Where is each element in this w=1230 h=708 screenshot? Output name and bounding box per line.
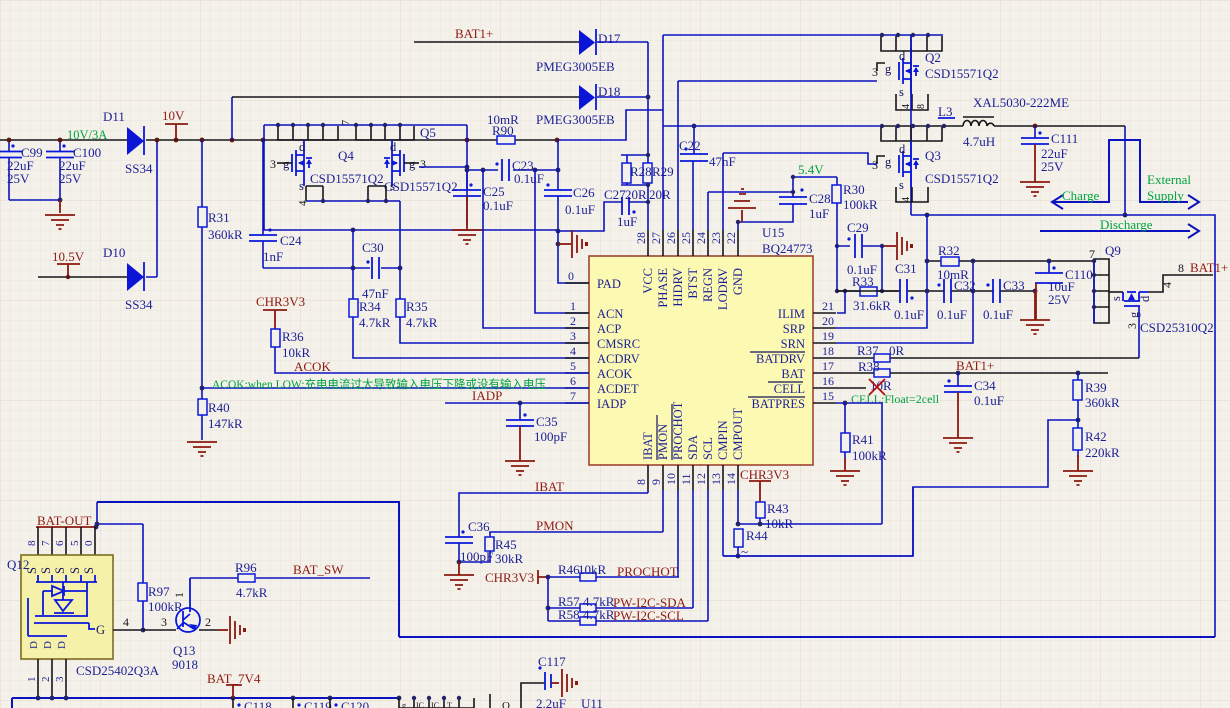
wire Q4Q5 top bus (264, 125, 467, 140)
svg-text:10kR: 10kR (282, 345, 311, 360)
wire SCL column (707, 490, 709, 621)
wire Q9 gate (1138, 306, 1140, 358)
svg-text:360kR: 360kR (1085, 395, 1120, 410)
capacitor C36 (445, 519, 493, 564)
svg-text:C25: C25 (483, 184, 505, 199)
svg-text:100kR: 100kR (843, 197, 878, 212)
IC bottom pin numbers (634, 473, 738, 485)
junction R31/ACDET (200, 386, 205, 391)
svg-text:10: 10 (664, 473, 678, 485)
wire C26 bottom to C27 (558, 202, 622, 231)
discharge arrow (1040, 217, 1199, 238)
svg-text:d: d (899, 49, 906, 63)
svg-text:XAL5030-222ME: XAL5030-222ME (973, 95, 1069, 110)
svg-text:SRP: SRP (783, 322, 805, 336)
wire row230 to row268 (352, 230, 354, 268)
wire gate row (143, 629, 176, 631)
svg-text:Discharge: Discharge (1100, 217, 1153, 232)
svg-text:CHR3V3: CHR3V3 (740, 467, 789, 482)
wire R57 row (548, 607, 693, 609)
svg-text:5: 5 (69, 540, 81, 546)
wire BAT row (836, 372, 1108, 374)
svg-text:g: g (402, 701, 406, 708)
svg-text:0: 0 (83, 540, 95, 546)
capacitor C26 (544, 140, 595, 231)
wire BATDRV R37 (836, 357, 1139, 359)
svg-text:3: 3 (54, 676, 66, 682)
svg-text:1: 1 (570, 299, 576, 313)
svg-text:SDA: SDA (686, 435, 700, 460)
resistor R44 (734, 528, 768, 559)
wire Q9 drain to BAT1+ (1148, 275, 1213, 292)
svg-text:16: 16 (822, 374, 834, 388)
svg-text:IADP: IADP (472, 388, 502, 403)
wire IADP (445, 402, 589, 404)
svg-text:IC: IC (416, 701, 424, 708)
IC top pin stubs (648, 230, 738, 256)
svg-text:Q9: Q9 (1105, 243, 1121, 258)
svg-text:0.1uF: 0.1uF (974, 393, 1004, 408)
svg-text:ACP: ACP (597, 322, 621, 336)
resistor R57 (558, 594, 615, 612)
svg-text:C35: C35 (536, 414, 558, 429)
svg-text:CSD15571Q2: CSD15571Q2 (384, 179, 458, 194)
wire phase row (663, 125, 881, 127)
svg-text:BAT-OUT: BAT-OUT (37, 513, 91, 528)
svg-text:CELL:Float=2cell: CELL:Float=2cell (851, 392, 940, 406)
svg-text:g: g (885, 155, 892, 169)
wire ACDET (202, 387, 589, 389)
svg-text:C111: C111 (1051, 131, 1078, 146)
junction dots on rail (7, 138, 12, 143)
svg-text:CSD25402Q3A: CSD25402Q3A (76, 663, 160, 678)
svg-text:18: 18 (822, 344, 834, 358)
svg-text:9: 9 (649, 479, 663, 485)
svg-text:T: T (447, 701, 452, 708)
svg-text:11: 11 (679, 473, 693, 485)
svg-text:10V: 10V (162, 108, 185, 123)
svg-text:BATPRES: BATPRES (752, 397, 806, 411)
svg-text:R37: R37 (857, 343, 879, 358)
svg-text:25: 25 (679, 232, 693, 244)
svg-text:13: 13 (709, 473, 723, 485)
wire row230 (263, 229, 558, 231)
svg-text:3: 3 (161, 615, 167, 629)
svg-text:3: 3 (270, 157, 276, 171)
svg-text:R28: R28 (630, 164, 652, 179)
wire Q2 top bus (663, 34, 943, 36)
svg-text:D10: D10 (103, 245, 125, 260)
wire SRN (836, 261, 973, 343)
wire R58 row (548, 620, 708, 622)
svg-text:0R: 0R (889, 343, 905, 358)
IC left pin names (597, 277, 640, 411)
ground rotated at C29 (884, 232, 913, 260)
capacitor C118 (233, 698, 272, 708)
svg-text:PMON: PMON (656, 424, 670, 460)
svg-text:CELL: CELL (774, 382, 805, 396)
svg-text:12: 12 (694, 473, 708, 485)
ground under R40 (187, 442, 217, 456)
svg-text:d: d (1138, 295, 1152, 302)
svg-text:4.7uH: 4.7uH (963, 134, 995, 149)
resistor R90 on rail (487, 112, 519, 144)
capacitor C25 (452, 170, 513, 244)
wire ILIM up (837, 291, 845, 313)
svg-text:100kR: 100kR (852, 448, 887, 463)
resistor R38 (858, 359, 892, 393)
wire GND pin up (737, 222, 739, 230)
svg-text:ACOK: ACOK (597, 367, 632, 381)
svg-text:U15: U15 (762, 225, 784, 240)
svg-text:BAT1+: BAT1+ (956, 358, 994, 373)
capacitor C100 (46, 140, 101, 200)
svg-text:C117: C117 (538, 654, 566, 669)
transistor Q4 (270, 140, 384, 193)
pad block Q4 (278, 126, 338, 140)
svg-text:R40: R40 (208, 400, 230, 415)
svg-text:4.7kR: 4.7kR (583, 607, 615, 622)
svg-text:D11: D11 (103, 109, 125, 124)
svg-text:47nF: 47nF (709, 154, 736, 169)
svg-text:2: 2 (205, 615, 211, 629)
svg-text:External: External (1147, 172, 1191, 187)
wire rail to corner (557, 110, 663, 140)
capacitor C111 (1020, 126, 1078, 196)
wire C23 row (467, 140, 558, 225)
connector block bottom (399, 698, 474, 708)
svg-text:1nF: 1nF (263, 249, 283, 264)
resistor R40 (198, 388, 243, 440)
svg-text:R58: R58 (558, 607, 580, 622)
svg-text:C34: C34 (974, 378, 996, 393)
svg-text:4.7kR: 4.7kR (406, 315, 438, 330)
svg-text:3: 3 (570, 329, 576, 343)
wire CMPIN row (738, 555, 913, 557)
inductor L3 (938, 95, 1069, 149)
svg-text:0.1uF: 0.1uF (514, 171, 544, 186)
ground rotated Q13 (218, 616, 246, 644)
net BAT-OUT (36, 513, 96, 528)
svg-text:R38: R38 (858, 359, 880, 374)
svg-text:220kR: 220kR (1085, 445, 1120, 460)
pad block Q3 top (881, 127, 942, 141)
ground inverted at GND pin (728, 189, 756, 222)
svg-text:ACDRV: ACDRV (597, 352, 640, 366)
sense cap row (837, 290, 1035, 292)
svg-text:G: G (96, 623, 105, 637)
svg-text:SS34: SS34 (125, 297, 153, 312)
svg-text:25V: 25V (7, 171, 30, 186)
wire discharge row right (1125, 215, 1215, 637)
capacitor C23 (495, 158, 544, 186)
wire to PAD (558, 231, 589, 283)
svg-text:D: D (56, 641, 68, 649)
svg-text:31.6kR: 31.6kR (853, 298, 891, 313)
svg-text:R44: R44 (746, 528, 768, 543)
transistor Q5 (384, 140, 458, 194)
capacitor C110 (1035, 261, 1093, 320)
svg-text:BQ24773: BQ24773 (762, 241, 813, 256)
svg-text:g: g (409, 157, 416, 171)
svg-text:LODRV: LODRV (716, 268, 730, 310)
svg-text:BAT: BAT (781, 367, 805, 381)
resistor R41 (830, 403, 887, 485)
svg-text:ACOK: ACOK (294, 359, 331, 374)
svg-text:10.5V: 10.5V (52, 249, 85, 264)
svg-text:BAT_SW: BAT_SW (293, 562, 344, 577)
svg-text:Q5: Q5 (420, 125, 436, 140)
resistor R31 (198, 140, 243, 388)
svg-text:C30: C30 (362, 240, 384, 255)
svg-text:CHR3V3: CHR3V3 (485, 570, 534, 585)
svg-text:PAD: PAD (597, 277, 621, 291)
svg-text:C119: C119 (304, 699, 332, 708)
svg-text:25V: 25V (1041, 159, 1064, 174)
svg-text:10kR: 10kR (578, 562, 607, 577)
wire divider to CMPIN (723, 420, 1078, 556)
Q12 gate pin (113, 629, 143, 631)
power CHR3V3 R43 (740, 467, 789, 502)
svg-text:3: 3 (872, 158, 878, 172)
IC right pin names (752, 307, 806, 411)
wire PHASE column (662, 35, 664, 230)
svg-text:24: 24 (694, 232, 708, 244)
svg-text:IC: IC (431, 701, 439, 708)
svg-text:4: 4 (123, 615, 129, 629)
transistor Q12 body (21, 555, 113, 659)
svg-text:CSD15571Q2: CSD15571Q2 (310, 171, 384, 186)
svg-text:CMSRC: CMSRC (597, 337, 640, 351)
svg-text:D17: D17 (598, 31, 621, 46)
wire PROCHOT column (677, 490, 679, 577)
svg-text:1: 1 (26, 677, 38, 683)
resistor R39 (1073, 373, 1120, 420)
wire to divider (912, 487, 914, 556)
wire CMPIN column (723, 490, 738, 556)
svg-text:Q2: Q2 (925, 50, 941, 65)
bottom wire (12, 698, 399, 708)
svg-text:C27: C27 (604, 187, 626, 202)
svg-text:PMON: PMON (536, 518, 574, 533)
capacitor C33 (983, 278, 1025, 322)
svg-text:C24: C24 (280, 233, 302, 248)
part U11 C117 (521, 683, 545, 708)
svg-text:C118: C118 (244, 699, 272, 708)
svg-text:d: d (299, 140, 306, 154)
resistor R37 (857, 343, 905, 362)
power BAT_7V4 (207, 671, 261, 698)
svg-text:BAT1+: BAT1+ (1190, 260, 1228, 275)
svg-text:0: 0 (568, 269, 574, 283)
svg-text:R30: R30 (843, 182, 865, 197)
wire SDA column (692, 490, 694, 608)
resistor R36 (256, 294, 589, 373)
svg-text:IADP: IADP (597, 397, 626, 411)
capacitor C24 (249, 140, 302, 268)
svg-text:14: 14 (724, 473, 738, 485)
Q12 D pins (28, 641, 68, 649)
svg-text:ACDET: ACDET (597, 382, 639, 396)
svg-text:4: 4 (901, 197, 912, 202)
svg-text:5.4V: 5.4V (798, 162, 824, 177)
svg-text:20R: 20R (649, 187, 671, 202)
svg-text:5: 5 (570, 359, 576, 373)
svg-text:26: 26 (664, 232, 678, 244)
svg-text:PW-I2C-SCL: PW-I2C-SCL (613, 608, 684, 623)
svg-text:4.7kR: 4.7kR (359, 315, 391, 330)
svg-text:C26: C26 (573, 185, 595, 200)
IC left pin numbers (568, 269, 576, 403)
wire Q4 gate to column (263, 140, 265, 230)
diode D17 (414, 29, 648, 74)
wire R46 row (548, 576, 679, 578)
resistor R34 (349, 268, 589, 358)
capacitor C28 (738, 188, 831, 222)
long bottom wire (399, 636, 1215, 638)
svg-text:0.1uF: 0.1uF (894, 307, 924, 322)
svg-text:Q13: Q13 (173, 643, 195, 658)
ground (45, 200, 75, 229)
svg-text:1: 1 (172, 592, 186, 598)
wire VCC column (647, 42, 649, 230)
svg-text:R34: R34 (359, 299, 381, 314)
wire source row (306, 201, 400, 268)
resistor R58 (558, 607, 615, 625)
svg-text:CMPOUT: CMPOUT (731, 408, 745, 460)
svg-text:ILIM: ILIM (778, 307, 805, 321)
svg-text:S: S (53, 567, 67, 574)
charge arrow (1052, 140, 1199, 209)
svg-text:7: 7 (40, 540, 52, 546)
wire SRP (836, 215, 927, 328)
wire BAT-OUT loop (97, 502, 399, 637)
svg-text:1uF: 1uF (617, 214, 637, 229)
pad block Q3 source (896, 187, 928, 202)
svg-text:8: 8 (26, 540, 38, 546)
capacitor C117 (536, 654, 578, 708)
wire C33 to ground (1034, 291, 1036, 320)
svg-text:8: 8 (634, 479, 648, 485)
wire output corner down (1124, 126, 1126, 215)
svg-text:R43: R43 (767, 501, 789, 516)
svg-text:d: d (899, 142, 906, 156)
Q12 pin stubs bottom (38, 659, 66, 698)
wire D18 anode from rail (231, 97, 233, 140)
svg-text:BATDRV: BATDRV (756, 352, 805, 366)
svg-text:0.1uF: 0.1uF (565, 202, 595, 217)
svg-text:PMEG3005EB: PMEG3005EB (536, 59, 615, 74)
svg-text:R31: R31 (208, 210, 230, 225)
svg-text:C36: C36 (468, 519, 490, 534)
svg-text:R41: R41 (852, 432, 874, 447)
svg-text:R42: R42 (1085, 429, 1107, 444)
svg-text:R97: R97 (148, 584, 170, 599)
svg-text:C22: C22 (679, 138, 701, 153)
capacitor C32 (937, 278, 976, 322)
wire input rail (0, 139, 127, 141)
svg-text:U11: U11 (581, 696, 603, 708)
IC bottom pin names (641, 401, 745, 460)
diode D11 (103, 109, 153, 176)
svg-text:20: 20 (822, 314, 834, 328)
svg-text:21: 21 (822, 299, 834, 313)
resistor R33 (837, 274, 900, 313)
diode D18 (536, 84, 648, 127)
svg-text:VCC: VCC (641, 268, 655, 294)
overlines bottom names (656, 415, 658, 460)
svg-text:R39: R39 (1085, 380, 1107, 395)
capacitor C27 (604, 187, 648, 229)
svg-text:C29: C29 (847, 220, 869, 235)
svg-text:CSD25310Q2: CSD25310Q2 (1140, 320, 1214, 335)
junction (58, 198, 63, 203)
IC top pin names (641, 268, 745, 310)
svg-text:2: 2 (40, 677, 52, 683)
svg-text:9018: 9018 (172, 657, 198, 672)
resistor R42 (1063, 420, 1120, 485)
capacitor C22 (679, 126, 736, 230)
svg-text:19: 19 (822, 329, 834, 343)
wire BATPRES (836, 403, 882, 524)
svg-text:g: g (283, 157, 290, 171)
svg-text:7: 7 (570, 389, 576, 403)
wire ACN column (535, 170, 589, 313)
label External Supply (1147, 172, 1191, 203)
junction dots top bus (276, 123, 402, 127)
wire 10.5V row (38, 276, 127, 278)
svg-text:S: S (68, 567, 82, 574)
IC right pin stubs (813, 313, 866, 403)
Q12 pin stubs top (38, 527, 95, 555)
svg-text:d: d (390, 140, 397, 154)
svg-text:Supply: Supply (1147, 188, 1184, 203)
svg-text:g: g (885, 62, 892, 76)
svg-text:3: 3 (420, 157, 426, 171)
wire C30 row (263, 267, 400, 269)
svg-text:0.1uF: 0.1uF (937, 307, 967, 322)
svg-text:0.1uF: 0.1uF (983, 307, 1013, 322)
svg-text:Q4: Q4 (338, 148, 354, 163)
svg-text:SCL: SCL (701, 437, 715, 460)
svg-text:CSD15571Q2: CSD15571Q2 (925, 171, 999, 186)
IC left pin stubs (565, 283, 589, 403)
capacitor C29 (837, 220, 882, 277)
svg-text:s: s (299, 179, 304, 193)
svg-text:2: 2 (570, 314, 576, 328)
wire CMPOUT row (738, 490, 882, 524)
wire phase to C111 corner (994, 125, 1125, 127)
svg-text:23: 23 (709, 232, 723, 244)
svg-text:27: 27 (649, 232, 663, 244)
svg-text:8: 8 (916, 104, 927, 109)
svg-text:S: S (39, 567, 53, 574)
svg-text:100kR: 100kR (148, 599, 183, 614)
svg-text:C33: C33 (1003, 278, 1025, 293)
svg-text:IBAT: IBAT (641, 432, 655, 460)
svg-text:25V: 25V (1048, 292, 1071, 307)
svg-text:ACN: ACN (597, 307, 623, 321)
wire Q5 gate to column (419, 166, 467, 168)
resistor R97 (138, 524, 183, 629)
svg-text:4: 4 (1160, 282, 1174, 288)
pad block Q2 source (896, 94, 928, 110)
svg-text:Q3: Q3 (925, 148, 941, 163)
svg-text:6: 6 (570, 374, 576, 388)
wire REGN (708, 192, 793, 230)
svg-text:100pF: 100pF (534, 429, 567, 444)
svg-text:L3: L3 (938, 104, 952, 119)
